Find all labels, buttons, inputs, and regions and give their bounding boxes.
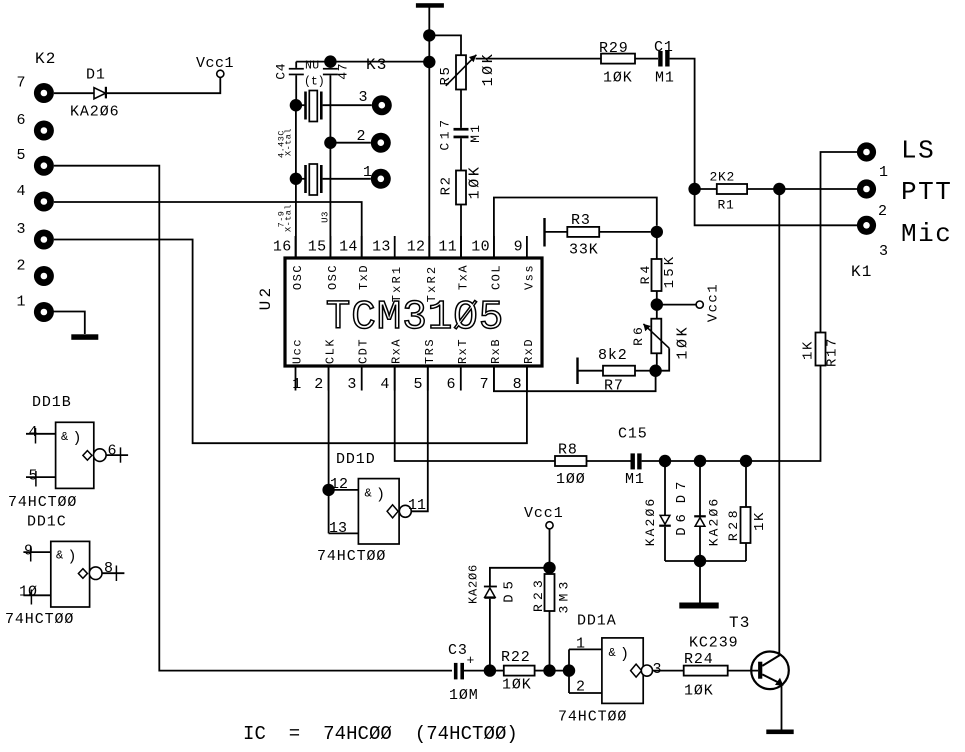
svg-text:2: 2 (314, 376, 323, 393)
connector K2 pad 6 (34, 121, 54, 141)
pin 13 TxR1 (394, 236, 396, 258)
svg-text:12: 12 (407, 239, 426, 256)
svg-text:TxD: TxD (357, 264, 371, 290)
svg-text:74HCTØØ: 74HCTØØ (5, 611, 74, 628)
pin 4 RxA (394, 366, 396, 391)
IC U2 box (285, 258, 542, 366)
connector K2 pad 5 (34, 156, 54, 176)
node D5/R23 (543, 562, 555, 574)
pin 2 CLK (328, 366, 330, 391)
svg-text:2: 2 (576, 679, 585, 696)
pin 14 TxD (361, 236, 363, 258)
svg-text:R24: R24 (684, 651, 714, 668)
connector K2 pad 3 (34, 230, 54, 250)
node R28 (740, 455, 752, 467)
svg-text:1ØK: 1ØK (684, 683, 714, 700)
wire PTT to T3 collector (778, 189, 780, 655)
svg-text:74HCTØØ: 74HCTØØ (317, 548, 386, 565)
svg-text:M1: M1 (625, 471, 645, 488)
gate DD1A input 1 (569, 648, 602, 650)
svg-text:16: 16 (273, 239, 292, 256)
svg-text:4: 4 (29, 424, 38, 441)
svg-text:1ØM: 1ØM (449, 687, 479, 704)
resistor R17 1K (816, 333, 826, 366)
wire pin 15 rail (329, 143, 331, 258)
wire K2-4 to pin 14 (54, 202, 362, 258)
ground (K2 pin 1) (71, 334, 98, 340)
svg-text:7: 7 (480, 376, 489, 393)
svg-text:TCM31Ø5: TCM31Ø5 (326, 295, 505, 341)
svg-text:6: 6 (446, 376, 455, 393)
svg-text:DD1D: DD1D (336, 451, 376, 468)
svg-text:8: 8 (104, 560, 113, 577)
svg-text:&: & (56, 549, 63, 563)
svg-text:IC = 74HCØØ (74HCTØØ): IC = 74HCØØ (74HCTØØ) (243, 723, 518, 745)
wire C3 to node (464, 670, 485, 672)
wire bar to R7 (578, 370, 604, 372)
svg-text:7: 7 (16, 75, 25, 92)
pin 6 RxT (460, 366, 462, 391)
svg-text:OSC: OSC (326, 264, 340, 290)
svg-text:U2: U2 (257, 285, 275, 311)
svg-text:13: 13 (372, 239, 391, 256)
svg-text:NU: NU (305, 60, 320, 73)
svg-text:15: 15 (308, 239, 327, 256)
node PTT/T3 (773, 183, 785, 195)
gate DD1C input 10 (23, 594, 50, 596)
wire R24 to base (728, 670, 758, 672)
node D7 (694, 455, 706, 467)
node D6 (659, 455, 671, 467)
svg-text:): ) (620, 646, 629, 663)
svg-text:R29: R29 (599, 40, 629, 57)
svg-text:X-tal: X-tal (284, 128, 294, 156)
svg-text:74HCTØØ: 74HCTØØ (558, 709, 627, 726)
pin 11 TxA (460, 236, 462, 258)
crystal X2 7-9 X-tal (290, 173, 302, 185)
svg-text:1ØØ: 1ØØ (556, 471, 586, 488)
connector K3 pad 2 (371, 133, 391, 153)
potentiometer R5 10K (456, 55, 466, 89)
wire K2-7 to D1 (54, 92, 94, 94)
capacitor C15 M1 (631, 453, 635, 469)
svg-text:C17: C17 (437, 116, 452, 150)
svg-text:CDT: CDT (357, 338, 371, 364)
pin 3 CDT (361, 366, 363, 391)
gate DD1A output 3 (631, 664, 642, 677)
svg-text:47: 47 (336, 63, 351, 80)
svg-text:DD1B: DD1B (32, 394, 72, 411)
svg-text:C1: C1 (654, 39, 674, 56)
wire R7 to node (635, 370, 651, 372)
gate DD1B input 5 (26, 476, 56, 478)
svg-text:R6: R6 (631, 324, 646, 346)
svg-text:C3: C3 (448, 642, 468, 659)
svg-text:TxR2: TxR2 (425, 265, 439, 303)
svg-text:3: 3 (347, 376, 356, 393)
svg-text:PTT: PTT (901, 177, 952, 207)
wire pin 4 to R8 (395, 366, 555, 461)
connector K1 pad 3 Mic (857, 216, 876, 235)
ground (clamp) (679, 603, 718, 609)
gate DD1A input tie (568, 649, 570, 693)
pin 15 OSC (329, 236, 331, 258)
svg-text:R28: R28 (726, 507, 741, 541)
wire Mic branch (695, 189, 857, 225)
gate DD1D input 12 (329, 489, 359, 491)
potentiometer R6 10K (656, 305, 658, 319)
resistor R24 10K (684, 666, 728, 676)
power Vcc1 (middle) (696, 301, 703, 308)
svg-text:DD1C: DD1C (27, 514, 67, 531)
svg-text:R3: R3 (571, 212, 591, 229)
svg-text:R4: R4 (638, 263, 653, 285)
resistor R22 10K (490, 670, 504, 672)
svg-text:DD1A: DD1A (577, 613, 617, 630)
wire R5 wiper to R29 (476, 58, 601, 60)
svg-text:Ucc: Ucc (291, 338, 305, 364)
node pad2 junction (324, 137, 336, 149)
svg-text:D6: D6 (674, 509, 690, 535)
node R3/R4 (651, 226, 663, 238)
svg-text:6: 6 (108, 443, 117, 460)
svg-text:COL: COL (489, 264, 503, 290)
wire clamp bottom (665, 560, 746, 562)
wire DD1A to R24 (653, 670, 684, 672)
svg-text:&: & (61, 430, 68, 444)
gate DD1D (358, 479, 399, 544)
svg-text:2K2: 2K2 (710, 170, 736, 185)
resistor R1 2K2 (695, 188, 717, 190)
svg-text:11: 11 (438, 239, 457, 256)
capacitor C1 M1 (658, 51, 662, 67)
wire R6 wiper tie (657, 348, 669, 371)
svg-text:8k2: 8k2 (598, 347, 628, 364)
resistor R2 10K (456, 171, 466, 205)
wire LS to R17 (821, 152, 858, 333)
wire R23 to node (549, 611, 551, 671)
svg-text:T3: T3 (729, 614, 751, 632)
wire node to tie (550, 670, 570, 672)
svg-text:R7: R7 (604, 378, 624, 395)
wire pin 2 to DD1D inputs (328, 366, 330, 533)
svg-text:RxA: RxA (390, 338, 404, 364)
svg-text:RxD: RxD (522, 338, 536, 364)
wire R29 to C1 (635, 58, 658, 60)
svg-text:1ØK: 1ØK (480, 52, 497, 87)
svg-text:KA2Ø6: KA2Ø6 (467, 564, 481, 604)
svg-text:12: 12 (330, 476, 348, 493)
svg-text:2: 2 (878, 203, 887, 220)
svg-text:KA2Ø6: KA2Ø6 (70, 104, 120, 121)
resistor R23 3M3 (549, 568, 551, 574)
capacitor C3 10M (454, 663, 458, 680)
svg-text:1Ø: 1Ø (19, 584, 37, 601)
wire K2-3 to pin 8 (54, 240, 527, 444)
node R4/R6 Vcc1 (651, 298, 663, 310)
wire R5 to C17 (460, 90, 462, 128)
svg-text:K1: K1 (851, 263, 873, 281)
transistor T3 KC239 (751, 652, 789, 690)
svg-text:LS: LS (901, 136, 935, 166)
svg-text:R5: R5 (438, 65, 454, 85)
wire C15 to nodes (642, 460, 746, 462)
connector K2 pad 2 (34, 266, 54, 286)
wire to pad 2 (330, 142, 370, 144)
svg-text:R2: R2 (439, 175, 455, 195)
wire K2-1 to ground (53, 312, 85, 335)
svg-text:5: 5 (29, 468, 38, 485)
connector K3 pad 3 (372, 95, 392, 115)
wire T3 emitter to ground (781, 686, 783, 730)
svg-text:): ) (68, 549, 77, 566)
node DD1A input tie (563, 664, 575, 676)
ground (top, inverted) (416, 3, 444, 8)
svg-text:Vcc1: Vcc1 (524, 505, 564, 522)
svg-text:14: 14 (339, 239, 358, 256)
wire pin 12 riser (428, 62, 430, 258)
svg-text:4: 4 (380, 376, 389, 393)
svg-text:+: + (467, 653, 475, 668)
svg-text:R22: R22 (501, 649, 531, 666)
gate DD1D input 13 (329, 532, 359, 534)
wire R17 to C15 row (746, 366, 821, 462)
svg-text:K3: K3 (366, 56, 388, 74)
resistor R7 8k2 (603, 366, 635, 376)
svg-text:&: & (609, 646, 616, 660)
pin 7 RxB (493, 366, 495, 391)
svg-text:1: 1 (292, 376, 301, 393)
svg-text:D5: D5 (502, 576, 518, 602)
diode D1 (94, 88, 106, 99)
svg-text:TxA: TxA (457, 264, 471, 290)
svg-text:1: 1 (363, 164, 372, 181)
svg-text:Vcc1: Vcc1 (196, 55, 234, 72)
wire R2 to pin 11 (460, 205, 462, 259)
wire R22 to node (535, 670, 544, 672)
pin 8 RxD (526, 366, 528, 391)
svg-text:CLK: CLK (324, 338, 338, 364)
svg-text:D7: D7 (674, 477, 690, 503)
svg-text:1K: 1K (752, 511, 768, 531)
connector K1 pad 2 PTT (857, 179, 876, 198)
svg-text:): ) (73, 430, 82, 447)
wire C17 to R2 (460, 138, 462, 170)
svg-text:33K: 33K (569, 242, 599, 259)
connector K3 pad 1 (371, 169, 391, 189)
svg-text:11: 11 (408, 497, 426, 514)
svg-text:R8: R8 (558, 442, 578, 459)
power Vcc1 (top left) (217, 70, 224, 77)
ground (T3 emitter) (766, 730, 793, 735)
svg-text:13: 13 (329, 520, 347, 537)
node OSC junction 2 (423, 56, 435, 68)
svg-text:15K: 15K (662, 254, 678, 289)
gate DD1B input 4 (26, 433, 56, 435)
pin 9 Vss (526, 236, 528, 258)
svg-text:9: 9 (24, 543, 33, 560)
wire Vcc1 to node (549, 529, 551, 568)
wire D1 to Vcc1 (107, 78, 220, 93)
wire bar to R3 (545, 231, 568, 233)
svg-text:OSC: OSC (291, 264, 305, 290)
svg-text:1: 1 (576, 636, 585, 653)
svg-text:4: 4 (16, 183, 25, 200)
svg-text:X-tal: X-tal (284, 204, 294, 232)
wire R3 to node (599, 231, 650, 233)
gate DD1C output 8 (78, 569, 87, 579)
node R23/R22 (543, 664, 555, 676)
svg-text:TxR1: TxR1 (390, 265, 404, 303)
wire R1 to PTT (747, 188, 857, 190)
crystal X1 4.43 X-tal (290, 99, 302, 111)
node cap C5 top (324, 55, 336, 67)
wire node to pin 7 (494, 366, 656, 391)
svg-text:RxB: RxB (489, 338, 503, 364)
svg-text:R17: R17 (825, 337, 841, 367)
connector K2 pad 1 (34, 302, 54, 322)
terminal bar (R3 left) (543, 218, 545, 247)
svg-text:2: 2 (356, 128, 365, 145)
wire R8 to C15 (587, 460, 631, 462)
svg-text:1: 1 (879, 164, 888, 181)
svg-text:10: 10 (471, 239, 490, 256)
resistor R8 100 (555, 456, 587, 466)
svg-text:(t): (t) (304, 76, 325, 89)
svg-text:2: 2 (16, 258, 25, 275)
svg-text:1K: 1K (801, 340, 817, 360)
pin 12 TxR2 (428, 236, 430, 258)
svg-text:3: 3 (879, 243, 888, 260)
gate DD1C input 9 (23, 551, 50, 553)
svg-text:K2: K2 (35, 50, 57, 68)
svg-text:RxT: RxT (456, 338, 470, 364)
gate DD1D output 11 (387, 505, 398, 518)
wire oscillator top rail (296, 61, 429, 63)
gate DD1B (56, 422, 94, 488)
diode D6 KA206 (664, 461, 666, 515)
svg-text:9: 9 (514, 239, 523, 256)
svg-text:C4: C4 (274, 63, 289, 80)
wire crystal X1 to pad 3 (323, 104, 372, 106)
diode D7 KA206 (699, 461, 701, 516)
wire C1 to Mic column (670, 59, 695, 189)
wire K2-5 to C3 row (54, 166, 452, 671)
svg-text:KC239: KC239 (689, 635, 739, 652)
pin 16 OSC (295, 236, 297, 258)
connector K2 pad 7 (34, 83, 54, 103)
svg-text:M1: M1 (655, 70, 675, 87)
connector K1 pad 1 LS (857, 142, 876, 161)
svg-text:3M3: 3M3 (557, 577, 572, 613)
diode D5 KA206 (490, 568, 550, 586)
wire junction1 to junction2 (428, 35, 430, 62)
wire pin 16 rail (295, 105, 297, 258)
svg-text:D1: D1 (86, 67, 106, 84)
wire Vcc1 stub (657, 304, 696, 306)
pin 10 COL (493, 236, 495, 258)
svg-text:1ØK: 1ØK (502, 677, 532, 694)
resistor R4 15K (656, 232, 658, 259)
svg-text:R1: R1 (718, 198, 735, 213)
svg-text:74HCTØØ: 74HCTØØ (8, 494, 77, 511)
wire R4 to Vcc node (656, 291, 658, 305)
svg-text:5: 5 (413, 376, 422, 393)
svg-text:1ØK: 1ØK (603, 70, 633, 87)
gate DD1B output 6 (83, 451, 92, 461)
svg-text:): ) (376, 487, 385, 504)
svg-text:&: & (365, 487, 372, 501)
connector K2 pad 4 (34, 192, 54, 212)
pin 5 TRS (427, 366, 429, 391)
node OSC junction 1 (423, 29, 435, 41)
svg-text:3: 3 (16, 221, 25, 238)
svg-text:1ØK: 1ØK (675, 325, 692, 360)
svg-text:U3: U3 (321, 211, 331, 223)
svg-text:Vcc1: Vcc1 (706, 283, 722, 322)
node Mic/R1 (688, 183, 700, 195)
svg-text:C15: C15 (618, 426, 648, 443)
svg-text:KA2Ø6: KA2Ø6 (707, 497, 722, 547)
svg-text:1: 1 (16, 294, 25, 311)
gate DD1C (51, 541, 90, 607)
gate DD1A (602, 638, 643, 704)
gate DD1A input 2 (569, 692, 602, 694)
svg-text:1ØK: 1ØK (467, 164, 484, 199)
svg-text:KA2Ø6: KA2Ø6 (643, 497, 658, 547)
svg-text:3: 3 (653, 661, 662, 678)
svg-text:Mic: Mic (901, 219, 952, 249)
node clamp ground (694, 555, 706, 567)
svg-text:R23: R23 (531, 576, 546, 612)
capacitor C17 M1 (454, 128, 469, 131)
pin 1 Ucc (295, 366, 297, 391)
svg-text:6: 6 (16, 112, 25, 129)
svg-text:M1: M1 (468, 122, 483, 142)
resistor R29 10K (601, 54, 635, 64)
svg-text:5: 5 (16, 147, 25, 164)
node R6/R7/pin7 (649, 365, 661, 377)
svg-text:Vss: Vss (522, 264, 536, 290)
node D5/R22 (484, 664, 496, 676)
svg-text:TRS: TRS (423, 338, 437, 364)
svg-text:3: 3 (358, 89, 367, 106)
wire pin 10 to R3 node (494, 198, 657, 259)
capacitor C4 (295, 62, 297, 68)
wire to R5 top (429, 35, 461, 55)
resistor R3 33K (567, 227, 599, 237)
resistor R28 1K (745, 461, 747, 507)
wire DD1D output to pin 5 (411, 366, 428, 511)
wire crystal X2 to pad 1 (323, 178, 371, 180)
terminal bar (R7 left) (576, 358, 578, 385)
node DD1D input (322, 484, 334, 496)
